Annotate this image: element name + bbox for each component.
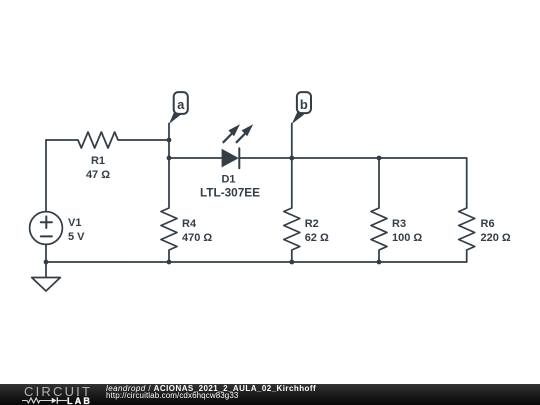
svg-text:b: b [300,97,308,112]
svg-text:47 Ω: 47 Ω [86,169,110,181]
svg-text:100 Ω: 100 Ω [392,232,422,244]
svg-text:R3: R3 [392,218,406,230]
svg-text:D1: D1 [221,174,235,186]
svg-text:R4: R4 [182,218,197,230]
svg-text:R1: R1 [91,155,105,167]
svg-text:R2: R2 [305,218,319,230]
svg-text:470 Ω: 470 Ω [182,232,212,244]
svg-text:a: a [177,97,185,112]
svg-text:V1: V1 [68,217,81,229]
svg-text:LTL-307EE: LTL-307EE [200,185,260,199]
svg-text:220 Ω: 220 Ω [481,232,511,244]
svg-text:R6: R6 [481,218,495,230]
svg-text:62 Ω: 62 Ω [305,232,329,244]
svg-text:5 V: 5 V [68,231,85,243]
